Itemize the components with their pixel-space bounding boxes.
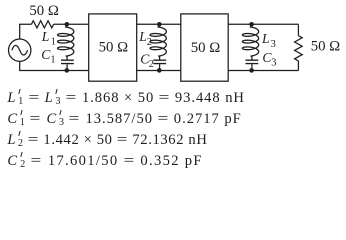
equation line 4: C2' bbox=[7, 151, 202, 168]
wire: box2 to load top rail bbox=[228, 23, 298, 25]
svg-text:3: 3 bbox=[271, 39, 276, 50]
wire: source bottom to bottom rail bbox=[20, 61, 89, 70]
node F junction dot bbox=[249, 68, 254, 73]
node A junction dot bbox=[65, 22, 70, 27]
wire: C2 to bottom rail bbox=[159, 64, 161, 70]
svg-text:50 Ω: 50 Ω bbox=[29, 3, 59, 19]
node C junction dot bbox=[157, 22, 162, 27]
wire: box2 to load bottom rail bbox=[228, 70, 298, 72]
box U2: 50 ohm two-port bbox=[181, 14, 228, 81]
box U1: 50 ohm two-port bbox=[89, 14, 137, 81]
wire: L1 to C1 bbox=[66, 56, 67, 60]
capacitor C2 bbox=[153, 60, 166, 63]
svg-text:L: L bbox=[41, 29, 50, 44]
svg-text:50 Ω: 50 Ω bbox=[99, 40, 129, 56]
circuit schematic bbox=[0, 0, 346, 174]
wire: C3 to bottom rail bbox=[251, 64, 253, 70]
node E junction dot bbox=[249, 22, 254, 27]
svg-text:50 Ω: 50 Ω bbox=[191, 40, 221, 56]
inductor L1 bbox=[58, 24, 74, 56]
svg-text:1: 1 bbox=[51, 37, 56, 48]
svg-text:L: L bbox=[261, 31, 270, 46]
wire: load resistor top lead bbox=[297, 24, 299, 35]
svg-text:50 Ω: 50 Ω bbox=[311, 39, 341, 55]
wire: box1 to box2 bottom rail bbox=[136, 70, 181, 72]
capacitor C1 bbox=[61, 60, 74, 63]
resistor RL 50 ohm load bbox=[295, 36, 303, 61]
node D junction dot bbox=[157, 68, 162, 73]
svg-text:3: 3 bbox=[271, 57, 276, 68]
inductor L2 bbox=[150, 24, 166, 56]
wire: load resistor bottom lead bbox=[297, 61, 299, 71]
wire: source top to resistor bbox=[20, 24, 32, 39]
svg-text:1: 1 bbox=[50, 55, 55, 66]
wire: resistor to node A and box 1 bbox=[54, 23, 89, 25]
wire: C1 to bottom rail bbox=[66, 64, 68, 70]
svg-text:L: L bbox=[138, 29, 147, 44]
AC source VS bbox=[9, 39, 31, 61]
wire: L2 to C2 bbox=[158, 56, 159, 60]
equation line 3: L2' bbox=[7, 130, 207, 147]
equation line 1: L1' = L3' bbox=[7, 88, 245, 105]
resistor RS 50 ohm series bbox=[31, 21, 53, 28]
capacitor C3 bbox=[246, 60, 259, 63]
inductor L3 bbox=[242, 24, 258, 56]
svg-text:2: 2 bbox=[149, 59, 154, 70]
wire: L3 to C3 bbox=[251, 56, 252, 60]
svg-text:2: 2 bbox=[147, 37, 152, 48]
wire: box1 to box2 top rail bbox=[136, 23, 181, 25]
node B junction dot bbox=[65, 68, 70, 73]
equation line 2: C1' = C3' bbox=[7, 109, 241, 126]
